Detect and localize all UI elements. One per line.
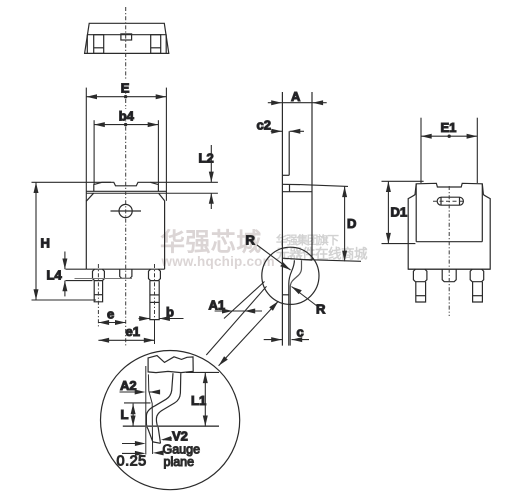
label E	[119, 81, 132, 93]
detail lead front edge	[156, 373, 180, 443]
body left edge	[85, 201, 87, 270]
detail circle outline	[101, 351, 240, 490]
svg-text:L2: L2	[199, 151, 214, 166]
dim c2	[271, 130, 282, 132]
lead foot tick	[282, 294, 289, 296]
view connector double arrow	[219, 301, 279, 366]
body right edge	[164, 201, 166, 270]
label b4	[118, 109, 134, 121]
back tab bottom	[416, 241, 482, 243]
top view inner right vertical	[165, 35, 167, 53]
svg-text:A2: A2	[120, 378, 137, 393]
svg-text:c2: c2	[257, 118, 271, 133]
dim L	[124, 402, 151, 404]
hole crosshair	[111, 210, 142, 212]
step bottom line	[282, 191, 312, 193]
svg-text:L4: L4	[47, 268, 63, 283]
dim D	[300, 185, 348, 187]
svg-text:V2: V2	[172, 429, 188, 444]
back left lead	[413, 269, 427, 282]
back slot	[437, 197, 463, 205]
side front (right) vertical	[311, 92, 313, 260]
svg-text:E1: E1	[441, 120, 457, 135]
dim H	[32, 181, 112, 183]
back tab sides	[415, 184, 417, 242]
hole circle	[119, 204, 132, 217]
dim e	[98, 322, 125, 324]
center lead stub	[120, 269, 132, 278]
svg-text:D: D	[347, 216, 356, 231]
svg-text:0.25: 0.25	[117, 454, 147, 470]
top view left lead post	[94, 35, 104, 54]
svg-text:L1: L1	[191, 393, 206, 408]
dim A2	[120, 391, 143, 393]
body bottom (slanted)	[282, 258, 312, 260]
small detail circle	[262, 247, 319, 304]
back body outline	[408, 183, 490, 269]
back view centerline	[448, 186, 450, 316]
tab bottom line	[86, 190, 166, 192]
dim L4	[66, 268, 87, 270]
svg-text:plane: plane	[164, 455, 195, 469]
centerline left lead	[97, 264, 99, 328]
centerline right lead	[154, 264, 156, 320]
right lead collar	[149, 269, 161, 280]
back center stub	[442, 269, 456, 282]
svg-text:R: R	[316, 302, 326, 317]
svg-text:E: E	[121, 81, 130, 96]
top view inner horizontal	[87, 34, 167, 36]
detail lead toe	[153, 442, 161, 443]
centerline main vertical	[125, 7, 127, 347]
back body bottom	[408, 268, 490, 270]
tab inner tick	[282, 174, 289, 176]
top view inner left vertical	[86, 35, 88, 53]
dim E1	[421, 135, 477, 137]
svg-text:www.hqchip.com: www.hqchip.com	[161, 254, 275, 269]
body top line (extends right as L2 extension)	[86, 192, 218, 194]
dim L2	[151, 181, 218, 183]
svg-text:e: e	[107, 307, 114, 322]
top view center tab box	[121, 34, 132, 40]
lead bend outer curve	[290, 260, 301, 345]
detail gauge vertical reference line	[145, 366, 147, 455]
dim c	[264, 339, 282, 341]
svg-text:L: L	[121, 407, 129, 422]
top view right lead post	[151, 35, 161, 54]
top view outline trapezoid	[85, 23, 169, 53]
svg-text:c: c	[297, 325, 304, 340]
dim b	[139, 318, 150, 320]
body left chamfer	[86, 193, 93, 201]
side top edge	[282, 102, 312, 104]
svg-text:H: H	[41, 236, 50, 251]
svg-text:D1: D1	[391, 205, 408, 220]
left lead collar	[93, 269, 105, 280]
left lead narrow	[94, 281, 102, 302]
detail body blob broken edge	[148, 356, 193, 373]
back slot dashed centerline	[433, 200, 466, 202]
tab top profile with notch	[94, 182, 159, 191]
detail seating plane line	[123, 425, 219, 427]
dim b4	[94, 124, 158, 126]
side back (left) vertical	[281, 92, 283, 346]
svg-text:A: A	[291, 89, 301, 104]
back right lead	[470, 269, 484, 282]
detail lead back edge	[146, 373, 173, 442]
lead bend inner curve	[289, 260, 295, 345]
detail gauge tilted line	[148, 374, 152, 454]
step short vertical	[289, 185, 291, 192]
svg-text:b: b	[166, 305, 174, 320]
dim L1	[186, 371, 219, 373]
dim A	[268, 102, 282, 104]
body bottom	[86, 268, 164, 270]
svg-text:R: R	[246, 233, 256, 248]
right lead extension solid	[154, 320, 156, 344]
dim D1	[382, 180, 424, 182]
dim A1 leader	[215, 310, 262, 312]
tab inner vertical	[288, 131, 290, 175]
watermark right column	[276, 233, 368, 262]
svg-text:华强集团旗下: 华强集团旗下	[276, 233, 339, 247]
tab step bottom	[282, 183, 300, 185]
dim E	[86, 96, 166, 98]
dim e1	[98, 339, 154, 341]
svg-text:b4: b4	[119, 108, 135, 123]
right lead narrow	[150, 281, 159, 320]
body right chamfer	[159, 193, 165, 201]
dim 0.25 arrows	[122, 443, 142, 445]
watermark big chinese	[160, 228, 275, 270]
svg-text:e1: e1	[126, 324, 140, 339]
svg-text:A1: A1	[209, 298, 226, 313]
